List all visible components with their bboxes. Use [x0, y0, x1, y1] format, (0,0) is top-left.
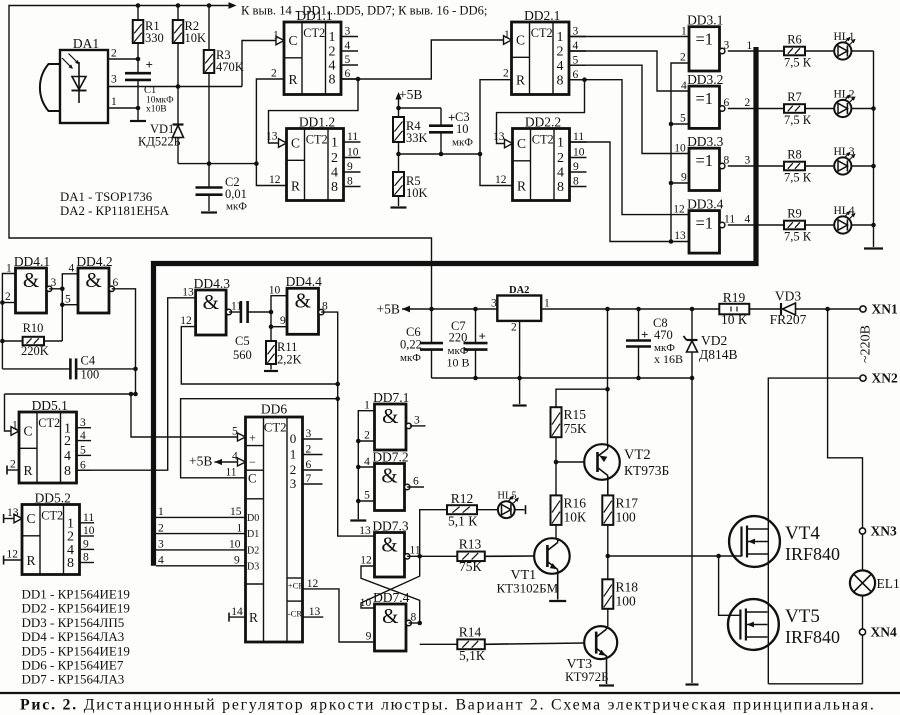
svg-text:D0: D0: [247, 513, 259, 524]
svg-text:1: 1: [237, 522, 243, 534]
svg-text:КТ972Б: КТ972Б: [565, 669, 609, 684]
svg-text:6: 6: [724, 97, 730, 109]
svg-text:CT2: CT2: [531, 26, 553, 40]
nand gate DD7.1: [364, 390, 420, 450]
svg-text:мкФ: мкФ: [226, 201, 247, 213]
capacitor C2: [196, 164, 248, 213]
svg-text:&: &: [295, 288, 311, 312]
svg-text:КД522Б: КД522Б: [138, 135, 181, 149]
resistor R17: [602, 480, 638, 580]
capacitor C5: [229, 301, 273, 362]
svg-text:8: 8: [557, 73, 564, 88]
svg-text:8: 8: [322, 301, 328, 313]
svg-text:6: 6: [413, 476, 419, 488]
svg-text:8: 8: [64, 464, 71, 479]
svg-text:3: 3: [414, 415, 420, 427]
svg-text:2: 2: [271, 68, 277, 80]
svg-text:&: &: [381, 533, 397, 557]
wire R4-R5 node: [399, 152, 483, 157]
svg-text:R14: R14: [459, 625, 482, 640]
svg-text:HL1: HL1: [833, 31, 854, 43]
svg-text:15: 15: [230, 506, 242, 518]
svg-text:2: 2: [64, 434, 71, 449]
svg-text:3: 3: [290, 476, 297, 491]
nand gate DD4.3: [180, 276, 242, 335]
LED HL5: [477, 491, 526, 519]
wire EL1 to XN4: [862, 596, 864, 629]
svg-text:2: 2: [5, 291, 11, 303]
wire DD7.3 pin12 to DD7.4 out cross: [361, 566, 420, 623]
svg-text:1: 1: [111, 96, 117, 108]
svg-text:=1: =1: [695, 151, 713, 170]
svg-text:7,5 К: 7,5 К: [784, 171, 812, 185]
svg-text:VT4: VT4: [785, 523, 820, 544]
svg-text:12: 12: [495, 174, 507, 186]
svg-text:DD5.2: DD5.2: [35, 490, 71, 505]
svg-text:DD1.2: DD1.2: [299, 114, 335, 129]
svg-text:4: 4: [329, 59, 336, 74]
svg-text:2: 2: [158, 522, 164, 534]
svg-text:DD6 - КР1564ИЕ7: DD6 - КР1564ИЕ7: [22, 658, 124, 673]
svg-text:R: R: [516, 73, 525, 88]
svg-text:DD5 - КР1564ИЕ19: DD5 - КР1564ИЕ19: [22, 643, 130, 658]
svg-text:1: 1: [6, 263, 12, 275]
xor gate DD3.2: [680, 72, 730, 128]
svg-text:11: 11: [225, 467, 236, 479]
IR receiver DA1: [40, 36, 117, 123]
resistor R8: [784, 147, 812, 184]
wire DD2 R net: [480, 80, 513, 186]
LED HL4: [833, 205, 855, 233]
LED HL1: [833, 31, 855, 59]
net label К выв.: [241, 4, 487, 18]
svg-text:VD2: VD2: [701, 333, 727, 348]
capacitor C6: [400, 309, 443, 378]
svg-text:100: 100: [616, 510, 637, 525]
svg-text:C4: C4: [81, 354, 96, 368]
svg-text:10K: 10K: [185, 31, 207, 45]
svg-text:6: 6: [80, 459, 86, 471]
svg-text:8: 8: [557, 180, 564, 195]
svg-text:0: 0: [290, 431, 297, 446]
svg-text:C: C: [248, 471, 257, 486]
wire DD5.1 R stub: [7, 459, 19, 475]
svg-text:7,5 К: 7,5 К: [784, 113, 812, 127]
svg-text:D2: D2: [247, 546, 259, 557]
wire VT2 emitter branch: [605, 309, 610, 445]
svg-text:2: 2: [557, 45, 564, 60]
svg-text:DD4.2: DD4.2: [76, 254, 112, 269]
svg-text:2: 2: [680, 52, 686, 64]
svg-text:DD7.4: DD7.4: [373, 590, 410, 605]
svg-text:R: R: [517, 179, 526, 194]
svg-text:2: 2: [503, 68, 509, 80]
svg-text:&: &: [382, 604, 398, 628]
svg-text:C: C: [517, 136, 526, 151]
svg-text:х10В: х10В: [146, 105, 167, 115]
wire DD7.3 out node: [407, 554, 422, 559]
svg-text:DD3.2: DD3.2: [687, 72, 723, 87]
svg-text:3: 3: [491, 298, 497, 310]
label DD6 pin numbers: [225, 426, 243, 618]
svg-text:DD3 - КР1564ЛП5: DD3 - КР1564ЛП5: [22, 615, 125, 630]
wire bus line 1 to DD6: [156, 506, 246, 518]
svg-text:4: 4: [345, 40, 351, 52]
svg-text:10 В: 10 В: [446, 356, 469, 370]
nand gate DD4.1: [5, 254, 57, 313]
svg-text:1: 1: [544, 298, 550, 310]
power label +5В mid: [377, 302, 498, 317]
terminal XN4: [859, 625, 897, 640]
svg-text:=1: =1: [695, 214, 713, 233]
wire XN1 branch to XN3: [828, 309, 863, 528]
svg-text:13: 13: [182, 287, 194, 299]
svg-text:IRF840: IRF840: [785, 544, 840, 564]
wire XOR output row 3: [728, 155, 784, 167]
wire DD2.1 out2 to DD3.2: [569, 51, 689, 91]
svg-text:4: 4: [557, 166, 564, 181]
svg-text:КТ3102БМ: КТ3102БМ: [497, 581, 559, 596]
svg-text:D1: D1: [247, 529, 259, 540]
svg-text:=1: =1: [695, 30, 713, 49]
wire bus line 2 to DD6: [156, 522, 246, 534]
caption text: [20, 697, 876, 714]
svg-text:6: 6: [306, 459, 312, 471]
svg-text:DD2.1: DD2.1: [524, 8, 560, 23]
svg-text:DD3.1: DD3.1: [687, 13, 723, 28]
svg-text:R10: R10: [23, 321, 44, 335]
LED HL3: [833, 146, 855, 174]
svg-text:100: 100: [616, 594, 637, 609]
wire bus line 3 to DD6: [156, 539, 246, 551]
svg-text:2: 2: [331, 151, 338, 166]
svg-text:DD7 - КР1564ЛА3: DD7 - КР1564ЛА3: [22, 672, 125, 687]
svg-text:4: 4: [158, 555, 164, 567]
svg-text:DD7.1: DD7.1: [373, 390, 409, 405]
svg-text:C: C: [27, 511, 36, 526]
svg-text:1: 1: [747, 40, 753, 52]
svg-text:3: 3: [51, 277, 57, 289]
wire DD6 -CR stub: [303, 616, 324, 618]
svg-text:DD3.3: DD3.3: [687, 134, 724, 149]
capacitor C3: [399, 108, 474, 156]
svg-text:470: 470: [654, 328, 673, 342]
resistor R14: [420, 625, 486, 664]
svg-text:DA1 - TSOP1736: DA1 - TSOP1736: [60, 190, 153, 204]
svg-text:3: 3: [111, 74, 117, 86]
svg-text:6: 6: [113, 277, 119, 289]
svg-text:R: R: [289, 72, 298, 87]
svg-text:13: 13: [674, 230, 686, 242]
svg-text:4: 4: [745, 214, 751, 226]
nand gate DD4.2: [65, 254, 119, 313]
svg-text:3: 3: [724, 40, 730, 52]
svg-text:4: 4: [364, 456, 370, 468]
wire DA1 pin3 to DD1.1 C: [108, 41, 280, 89]
wire DD1.1 R: [256, 79, 286, 186]
svg-text:+: +: [641, 327, 648, 342]
svg-text:D3: D3: [247, 561, 259, 572]
counter DD5.1: [11, 398, 91, 483]
svg-text:100: 100: [81, 368, 100, 382]
wire XOR output row 1: [728, 40, 784, 52]
wire net A to DD5.1 C: [5, 394, 12, 431]
label ~220В: [859, 325, 874, 363]
svg-text:2: 2: [511, 322, 517, 334]
resistor R3: [204, 6, 244, 164]
resistor R6: [784, 32, 812, 69]
svg-text:2: 2: [10, 459, 16, 471]
resistor R9: [784, 206, 812, 243]
svg-text:2: 2: [111, 48, 117, 60]
svg-text:5: 5: [232, 426, 238, 438]
svg-text:=1: =1: [695, 89, 713, 108]
wire DD2.2 C loop: [497, 77, 587, 143]
svg-text:12: 12: [307, 578, 319, 590]
wire VD1 node: [178, 161, 259, 166]
svg-text:DD2 - КР1564ИЕ19: DD2 - КР1564ИЕ19: [22, 601, 130, 616]
svg-text:3: 3: [745, 155, 751, 167]
wire DD2.1 out4 to DD3.3: [569, 65, 689, 153]
svg-text:К выв. 14 - DD1...DD5, DD7; К: К выв. 14 - DD1...DD5, DD7; К выв. 16 - …: [241, 4, 487, 18]
resistor R16: [551, 495, 588, 538]
power label +5В at DD6: [189, 454, 238, 469]
wire R9 to HL4: [805, 224, 834, 226]
wire DD5.2 C stub: [4, 514, 14, 523]
svg-text:4: 4: [232, 451, 238, 463]
resistor R19: [719, 290, 781, 327]
svg-text:DD7.3: DD7.3: [372, 518, 409, 533]
svg-text:R8: R8: [787, 147, 802, 161]
ground: [513, 404, 527, 406]
resistor R18: [602, 579, 638, 626]
svg-text:10К: 10К: [564, 510, 588, 525]
transistor VT2: [556, 444, 669, 495]
svg-text:HL4: HL4: [833, 205, 854, 217]
svg-text:C: C: [291, 136, 300, 151]
svg-text:R15: R15: [564, 407, 587, 422]
xor gate DD3.1: [680, 13, 730, 72]
capacitor C8: [626, 309, 683, 378]
wire +5V top rail and left feed loop: [9, 2, 432, 309]
svg-text:3: 3: [158, 539, 164, 551]
svg-text:12: 12: [180, 315, 192, 327]
svg-text:8: 8: [573, 176, 579, 188]
svg-text:5,1К: 5,1К: [459, 648, 486, 663]
svg-text:4: 4: [64, 449, 71, 464]
wire DD7.2 out stub: [407, 486, 424, 488]
svg-text:HL5: HL5: [497, 491, 516, 502]
svg-text:33K: 33K: [406, 131, 428, 145]
svg-text:9: 9: [681, 172, 687, 184]
svg-text:R13: R13: [459, 537, 482, 552]
svg-text:10: 10: [347, 147, 359, 159]
svg-text:10: 10: [83, 525, 95, 537]
resistor R15: [551, 389, 608, 495]
diode VD3: [770, 289, 860, 328]
wire DD1.1 out8 to DD2.1 C: [341, 40, 508, 81]
wire DD7.3 out to DD7.4 pin10 cross: [361, 556, 420, 608]
svg-text:EL1: EL1: [877, 576, 900, 591]
svg-text:&: &: [85, 268, 101, 292]
svg-text:11: 11: [83, 512, 94, 524]
lamp EL1: [850, 570, 900, 595]
svg-text:10: 10: [229, 539, 241, 551]
svg-text:DD2.2: DD2.2: [525, 114, 561, 129]
svg-text:CT2: CT2: [532, 133, 554, 147]
svg-text:10: 10: [269, 285, 281, 297]
svg-text:КТ973Б: КТ973Б: [624, 463, 669, 478]
svg-text:XN2: XN2: [872, 371, 898, 386]
xor gate DD3.4: [673, 196, 735, 253]
svg-text:DD4.3: DD4.3: [194, 276, 231, 291]
svg-text:DA2: DA2: [509, 285, 529, 296]
terminal XN1: [860, 302, 898, 317]
svg-text:9: 9: [280, 315, 286, 327]
svg-text:мкФ: мкФ: [452, 137, 473, 149]
svg-text:1: 1: [364, 400, 370, 412]
ground: [391, 206, 407, 208]
wire DD5.1 out8 to DD4.3 pin13: [77, 298, 196, 470]
wire DD4.1 out to DD4.2 in: [49, 274, 78, 341]
svg-text:2: 2: [364, 430, 370, 442]
svg-text:7: 7: [306, 473, 312, 485]
ground: [549, 600, 566, 602]
svg-text:C5: C5: [235, 334, 250, 348]
wire DD2.1 out8 to DD3.4: [569, 80, 689, 215]
svg-text:12: 12: [7, 549, 19, 561]
svg-text:DD1.1: DD1.1: [296, 8, 332, 23]
svg-text:75K: 75K: [564, 421, 588, 436]
LED HL2: [833, 89, 855, 117]
counter DD6: [238, 402, 323, 643]
svg-text:560: 560: [233, 348, 252, 362]
svg-text:5: 5: [80, 445, 86, 457]
svg-text:1: 1: [557, 30, 564, 45]
svg-text:3: 3: [306, 428, 312, 440]
wire DD4.4 inputs: [269, 296, 287, 341]
svg-text:2: 2: [745, 97, 751, 109]
wire DD4.2 out net A: [5, 289, 138, 397]
counter DD2.1: [503, 8, 586, 95]
svg-text:DA2 - КР1181ЕН5А: DA2 - КР1181ЕН5А: [60, 204, 170, 218]
counter DD1.2: [266, 114, 361, 200]
svg-text:5,1 К: 5,1 К: [448, 514, 478, 529]
svg-text:14: 14: [231, 606, 243, 618]
svg-text:&: &: [381, 464, 397, 488]
wire DD7.1 out stub: [410, 425, 426, 427]
svg-text:DD5.1: DD5.1: [32, 398, 68, 413]
wire DD7.1 DD7.2 inputs grounded: [356, 411, 375, 520]
svg-text:4: 4: [331, 166, 338, 181]
wire DD4.4 out to DD7.3 pin13: [321, 312, 374, 536]
svg-text:2: 2: [290, 462, 297, 477]
wire XOR output row 4: [728, 214, 784, 226]
svg-text:9: 9: [347, 161, 353, 173]
resistor R5: [393, 172, 428, 206]
wire common rail: [432, 376, 695, 381]
svg-text:5: 5: [364, 490, 370, 502]
svg-text:CT2: CT2: [38, 416, 60, 430]
svg-text:8: 8: [83, 552, 89, 564]
ground: [264, 370, 278, 372]
svg-text:х 16В: х 16В: [654, 352, 683, 366]
svg-text:1: 1: [290, 447, 297, 462]
svg-text:CT2: CT2: [41, 509, 63, 523]
ground: [201, 211, 217, 213]
svg-text:2,2K: 2,2K: [277, 353, 302, 367]
transistor VT1: [485, 538, 570, 599]
resistor R12: [420, 491, 479, 556]
ground: [130, 108, 146, 121]
svg-text:13: 13: [493, 131, 505, 143]
ground: [350, 519, 366, 521]
svg-text:DD4 - КР1564ЛА3: DD4 - КР1564ЛА3: [22, 629, 125, 644]
wire DD6 +CR to DD7.4: [303, 589, 375, 642]
svg-text:3: 3: [345, 26, 351, 38]
resistor R11: [266, 340, 302, 370]
wire gate drive line: [608, 554, 742, 616]
svg-text:&: &: [203, 290, 219, 314]
svg-text:7,5 К: 7,5 К: [784, 230, 812, 244]
svg-text:75К: 75К: [459, 559, 483, 574]
svg-text:CT2: CT2: [306, 133, 328, 147]
wire DA1 pin1: [108, 106, 140, 111]
wire R8 to HL3: [805, 165, 834, 167]
svg-text:1: 1: [331, 136, 338, 151]
svg-text:5: 5: [345, 54, 351, 66]
svg-text:9: 9: [234, 555, 240, 567]
svg-text:DD6: DD6: [261, 402, 287, 417]
svg-text:2: 2: [557, 151, 564, 166]
mosfet VT4: [729, 516, 840, 567]
resistor R7: [784, 90, 812, 127]
wire net A to DD6 plus: [131, 394, 238, 437]
capacitor C1: [125, 57, 174, 115]
svg-text:10 К: 10 К: [721, 312, 748, 327]
wire XOR output row 2: [728, 97, 784, 109]
svg-text:R: R: [291, 179, 300, 194]
resistor R4: [393, 117, 428, 172]
svg-text:0,22: 0,22: [400, 338, 422, 352]
svg-text:+5В: +5В: [377, 302, 400, 317]
nand gate DD7.4: [360, 590, 417, 651]
capacitor C7: [446, 309, 487, 380]
svg-text:10: 10: [573, 147, 585, 159]
zener diode VD2: [684, 309, 738, 683]
regulator DA2: [491, 285, 550, 334]
svg-text:13: 13: [7, 507, 19, 519]
resistor R10: [2, 321, 62, 358]
counter DD2.2: [493, 114, 587, 200]
nand gate DD4.4: [269, 274, 328, 334]
diode VD1: [138, 87, 184, 164]
wire HL3 to rail: [851, 165, 873, 167]
svg-text:DD7.2: DD7.2: [372, 449, 408, 464]
svg-text:12: 12: [673, 204, 685, 216]
svg-text:11: 11: [347, 131, 358, 143]
svg-text:XN3: XN3: [871, 524, 897, 539]
svg-text:HL3: HL3: [833, 146, 854, 158]
caption rule: [0, 692, 900, 694]
svg-text:4: 4: [69, 263, 75, 275]
svg-text:13: 13: [266, 131, 278, 143]
mosfet VT5: [728, 599, 840, 650]
svg-text:VT2: VT2: [624, 447, 651, 463]
svg-text:+: +: [146, 57, 153, 72]
svg-text:4: 4: [681, 80, 687, 92]
svg-text:&: &: [382, 404, 398, 428]
